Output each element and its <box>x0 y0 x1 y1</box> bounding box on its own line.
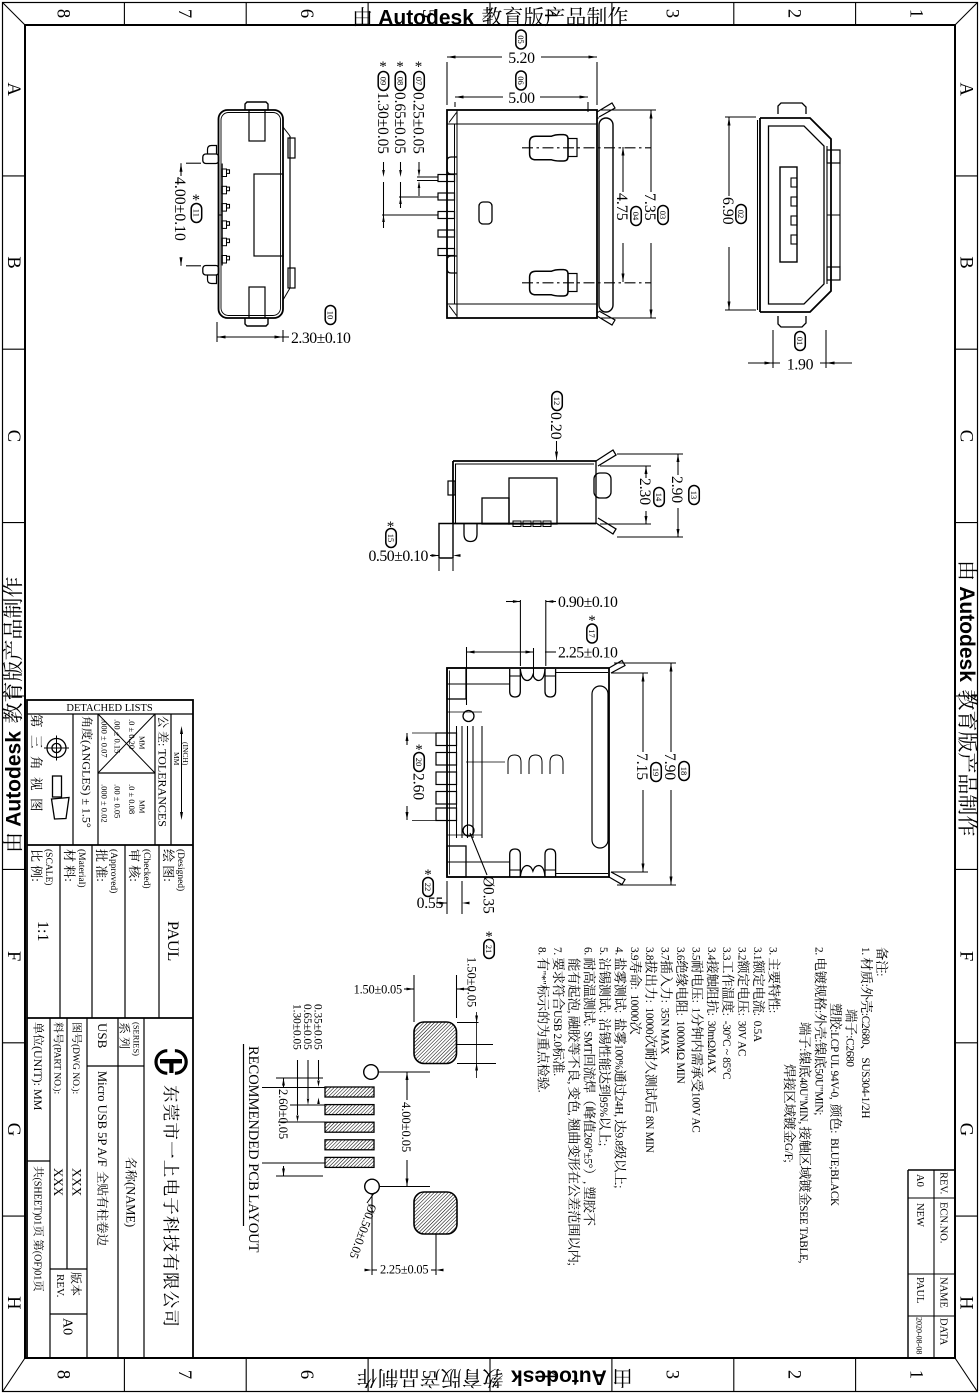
svg-text:1.90: 1.90 <box>787 357 814 374</box>
svg-text:ECN.NO.: ECN.NO. <box>938 1202 949 1243</box>
svg-text:7.90: 7.90 <box>661 753 678 780</box>
svg-text:A0: A0 <box>60 1318 75 1335</box>
svg-text:09: 09 <box>379 77 389 86</box>
svg-text::LCP UL 94V-0,: :LCP UL 94V-0, <box>828 1029 840 1102</box>
svg-text:08: 08 <box>396 77 406 86</box>
revision table <box>908 1169 955 1171</box>
svg-text:C: C <box>3 430 23 442</box>
svg-text:.00 ± 0.05: .00 ± 0.05 <box>112 784 122 818</box>
svg-text:40U"MIN,: 40U"MIN, <box>797 1078 809 1127</box>
view 1: connector top view <box>219 110 284 318</box>
svg-text:PAUL: PAUL <box>164 921 181 961</box>
svg-text::: : <box>766 1010 778 1013</box>
svg-text:SEE TABLE,: SEE TABLE, <box>797 1205 809 1263</box>
svg-text:1.30±0.05: 1.30±0.05 <box>374 92 391 154</box>
svg-text:: 10000: : 10000 <box>628 987 640 1022</box>
svg-text:4.00±0.10: 4.00±0.10 <box>171 177 188 241</box>
svg-text:1.30±0.05: 1.30±0.05 <box>290 1004 302 1050</box>
svg-text:3: 3 <box>662 1370 682 1379</box>
svg-text:13: 13 <box>689 491 699 500</box>
svg-text:RECOMMENDED PCB LAYOUT: RECOMMENDED PCB LAYOUT <box>245 1046 261 1253</box>
svg-text:100%: 100% <box>612 1044 624 1069</box>
svg-text:NEW: NEW <box>914 1203 925 1227</box>
recommended PCB layout <box>245 1046 261 1253</box>
svg-text::: : <box>874 973 886 976</box>
svg-text:7.15: 7.15 <box>633 753 650 780</box>
svg-text:Autodesk: Autodesk <box>378 7 474 30</box>
view 2: connector front view <box>447 110 597 318</box>
svg-text:21: 21 <box>484 945 494 954</box>
svg-text:6.90: 6.90 <box>719 197 736 225</box>
svg-text:3.: 3. <box>766 947 778 957</box>
svg-text:H: H <box>955 1296 975 1309</box>
svg-text:50U"MIN;: 50U"MIN; <box>813 1068 825 1115</box>
svg-text:2.30: 2.30 <box>636 478 653 505</box>
svg-text:1: 1 <box>906 1370 926 1379</box>
svg-text:9.8: 9.8 <box>612 1133 624 1147</box>
svg-text:8.: 8. <box>535 947 547 957</box>
svg-text:1: 1 <box>906 9 926 18</box>
svg-text::: : <box>813 1039 825 1042</box>
Autodesk educational watermarks <box>355 6 628 30</box>
svg-text:: 30V AC: : 30V AC <box>736 1013 748 1056</box>
svg-text:: BLUE;BLACK: : BLUE;BLACK <box>828 1130 840 1206</box>
svg-text:*: * <box>415 742 423 758</box>
svg-text:3: 3 <box>662 9 682 18</box>
svg-text:;: ; <box>612 1185 624 1188</box>
svg-text:A0: A0 <box>914 1174 925 1187</box>
svg-text:(UNIT): MM: (UNIT): MM <box>31 1046 45 1111</box>
svg-text:(PART NO.):: (PART NO.): <box>52 1044 63 1094</box>
svg-text:,: , <box>566 1082 578 1087</box>
svg-text:.000 ± 0.07: .000 ± 0.07 <box>99 719 109 758</box>
svg-text:Autodesk: Autodesk <box>955 586 978 682</box>
svg-text:USB 2.0: USB 2.0 <box>551 1010 563 1047</box>
svg-text:260°±5°: 260°±5° <box>582 1132 594 1168</box>
svg-text:*: * <box>424 867 432 883</box>
svg-text:95%: 95% <box>597 1097 609 1117</box>
svg-text:B: B <box>955 256 975 268</box>
svg-text:: 1000MΩ MIN: : 1000MΩ MIN <box>674 1013 686 1084</box>
svg-text:MM: MM <box>137 736 146 750</box>
svg-text:Ø0.35: Ø0.35 <box>480 876 497 914</box>
svg-text:MM: MM <box>172 752 181 766</box>
svg-text:6: 6 <box>296 9 316 18</box>
svg-text:5.: 5. <box>597 947 609 957</box>
svg-text:*: * <box>485 929 493 945</box>
svg-text:3.9: 3.9 <box>628 947 640 961</box>
svg-text:(NAME): (NAME) <box>124 1182 138 1227</box>
svg-text:(SCALE): (SCALE) <box>43 849 54 885</box>
svg-text:(Checked): (Checked) <box>141 849 152 889</box>
svg-text:2.25±0.10: 2.25±0.10 <box>558 645 618 662</box>
svg-text:7.: 7. <box>551 947 563 957</box>
svg-text:5: 5 <box>418 1370 438 1379</box>
svg-text:MM: MM <box>137 800 146 814</box>
svg-text:3.3: 3.3 <box>720 947 732 961</box>
svg-text:.00 ± 0.15: .00 ± 0.15 <box>112 719 122 753</box>
svg-text:2.: 2. <box>813 947 825 957</box>
svg-text:07: 07 <box>414 77 424 86</box>
svg-text:PAUL: PAUL <box>914 1277 925 1303</box>
svg-text:2.30±0.10: 2.30±0.10 <box>291 330 351 347</box>
svg-text:A: A <box>955 83 975 97</box>
svg-text:G/F;: G/F; <box>782 1143 794 1163</box>
svg-text:8: 8 <box>52 1370 72 1379</box>
svg-text:(SHEET)01: (SHEET)01 <box>31 1178 42 1226</box>
svg-text:G: G <box>3 1123 23 1136</box>
svg-text:7: 7 <box>174 9 194 18</box>
svg-text:: TOLERANCES: : TOLERANCES <box>156 743 170 827</box>
svg-text:0.20: 0.20 <box>547 412 564 440</box>
svg-text:24H,: 24H, <box>612 1096 624 1120</box>
svg-text:XXX: XXX <box>69 1168 84 1197</box>
svg-text:2020-08-08: 2020-08-08 <box>915 1317 924 1354</box>
svg-text:1.: 1. <box>859 947 871 957</box>
svg-text:F: F <box>3 951 23 961</box>
svg-text:: 30mΩMAX: : 30mΩMAX <box>705 1013 717 1074</box>
svg-text:6: 6 <box>296 1370 316 1379</box>
view 3: mating face view <box>760 118 831 312</box>
svg-text::C2680: :C2680 <box>859 1013 871 1045</box>
svg-text:18: 18 <box>679 767 689 776</box>
svg-text:15: 15 <box>386 534 396 543</box>
svg-text:(DWG NO.):: (DWG NO.): <box>70 1044 81 1094</box>
svg-text:0.90±0.10: 0.90±0.10 <box>558 594 618 611</box>
svg-text::: : <box>62 878 77 882</box>
svg-text:10: 10 <box>326 311 336 320</box>
svg-text:03: 03 <box>658 211 668 220</box>
svg-text:1.50±0.05: 1.50±0.05 <box>465 957 479 1007</box>
svg-text:: 35N MAX: : 35N MAX <box>659 1000 671 1055</box>
svg-text:0.50±0.10: 0.50±0.10 <box>369 548 429 565</box>
svg-text:3.2: 3.2 <box>736 947 748 960</box>
svg-text:USB: USB <box>95 1023 110 1049</box>
svg-text::: : <box>127 878 142 882</box>
svg-text:: -30°C ~ 85°C: : -30°C ~ 85°C <box>720 1013 732 1080</box>
svg-text:B: B <box>3 256 23 268</box>
svg-text:.0 ± 0.08: .0 ± 0.08 <box>127 784 137 814</box>
svg-text:DETACHED LISTS: DETACHED LISTS <box>66 703 153 714</box>
svg-text:C: C <box>955 430 975 442</box>
svg-text:5.00: 5.00 <box>508 90 535 107</box>
svg-text:1:1: 1:1 <box>34 921 51 941</box>
svg-text::: : <box>612 1010 624 1018</box>
svg-text:3.1: 3.1 <box>751 947 763 960</box>
svg-text:4.75: 4.75 <box>613 193 630 221</box>
svg-text:: 0.5A: : 0.5A <box>751 1013 763 1042</box>
svg-text:Autodesk: Autodesk <box>3 731 26 827</box>
svg-text:100V AC: 100V AC <box>689 1092 701 1133</box>
svg-text:SUS304-1/2H: SUS304-1/2H <box>859 1058 871 1119</box>
notes 备注 text block <box>874 947 888 976</box>
svg-text:2.60: 2.60 <box>409 773 426 800</box>
svg-text:2.25±0.05: 2.25±0.05 <box>380 1263 428 1277</box>
svg-text:REV.: REV. <box>938 1172 949 1194</box>
svg-text:3.5: 3.5 <box>689 947 701 961</box>
svg-text:5.20: 5.20 <box>508 50 535 67</box>
svg-text:;: ; <box>597 1143 609 1146</box>
svg-text:,: , <box>582 1181 594 1186</box>
svg-text:3.4: 3.4 <box>705 947 717 961</box>
svg-text:8N MIN: 8N MIN <box>643 1113 655 1152</box>
svg-text:0.65±0.05: 0.65±0.05 <box>391 92 408 154</box>
svg-text:2.90: 2.90 <box>668 476 685 503</box>
svg-text:2: 2 <box>784 1370 804 1379</box>
svg-text:12: 12 <box>552 397 562 406</box>
svg-text:*: * <box>192 192 200 209</box>
svg-text:"*": "*" <box>535 971 547 985</box>
svg-text:06: 06 <box>516 76 526 85</box>
svg-text:,: , <box>566 1011 578 1016</box>
svg-text::C2680: :C2680 <box>843 1035 855 1067</box>
svg-text:NAME: NAME <box>938 1277 949 1308</box>
svg-text:*: * <box>588 613 596 629</box>
svg-text:(Approved): (Approved) <box>108 849 119 893</box>
svg-text:20: 20 <box>414 758 424 767</box>
svg-text::: : <box>94 878 109 882</box>
svg-text:Autodesk: Autodesk <box>511 1366 607 1389</box>
svg-text:04: 04 <box>631 212 641 221</box>
svg-text:: 10000: : 10000 <box>643 1000 655 1035</box>
svg-text:17: 17 <box>587 629 597 638</box>
svg-text:.0 ± 0.20: .0 ± 0.20 <box>127 719 137 749</box>
svg-text:22: 22 <box>423 883 433 892</box>
svg-text:,: , <box>566 1113 578 1118</box>
svg-text::: : <box>813 1010 825 1013</box>
svg-text:*: * <box>387 519 395 535</box>
svg-text::: : <box>859 984 871 987</box>
svg-text:14: 14 <box>654 493 664 502</box>
view 4: side view <box>453 460 596 462</box>
svg-text:.: . <box>535 1090 547 1093</box>
svg-text:3.7: 3.7 <box>659 947 671 961</box>
svg-text:XXX: XXX <box>51 1168 66 1197</box>
svg-text:A: A <box>3 83 23 97</box>
svg-text:7: 7 <box>174 1370 194 1379</box>
view 5: bottom view <box>447 668 609 877</box>
svg-text:;: ; <box>566 1263 578 1266</box>
svg-text:0.25±0.05: 0.25±0.05 <box>410 92 427 154</box>
svg-text:4.00±0.05: 4.00±0.05 <box>399 1102 413 1152</box>
svg-text:3.8: 3.8 <box>643 947 655 961</box>
svg-text::: : <box>797 1048 809 1051</box>
svg-text:(INCH): (INCH) <box>181 742 190 766</box>
svg-text::: : <box>597 1010 609 1018</box>
svg-text:F: F <box>955 951 975 961</box>
svg-text:01: 01 <box>795 337 805 346</box>
svg-text:H: H <box>3 1296 23 1309</box>
svg-text:1.50±0.05: 1.50±0.05 <box>354 983 402 997</box>
svg-text:(OF)01: (OF)01 <box>31 1251 42 1280</box>
svg-text:.000 ± 0.02: .000 ± 0.02 <box>99 784 109 823</box>
svg-text:: SMT: : SMT <box>582 1023 594 1054</box>
svg-text:19: 19 <box>651 768 661 777</box>
title block <box>27 700 193 1358</box>
svg-text:REV.: REV. <box>54 1274 66 1298</box>
svg-text:(Designed): (Designed) <box>175 849 186 891</box>
svg-text:4.: 4. <box>612 947 624 957</box>
svg-text:7.35: 7.35 <box>641 193 658 221</box>
svg-text:02: 02 <box>736 210 746 219</box>
svg-text:11: 11 <box>192 209 202 217</box>
svg-text:6.: 6. <box>582 947 594 957</box>
svg-text:: 1: : 1 <box>689 1000 701 1013</box>
svg-text:05: 05 <box>516 35 526 44</box>
svg-text:DATA: DATA <box>938 1318 949 1346</box>
svg-text:(SERIES): (SERIES) <box>131 1022 141 1056</box>
svg-text:2.60±0.05: 2.60±0.05 <box>276 1089 290 1139</box>
svg-text:2: 2 <box>784 9 804 18</box>
svg-text:3.6: 3.6 <box>674 947 686 961</box>
svg-text:(ANGLES) ± 1.5°: (ANGLES) ± 1.5° <box>80 740 94 828</box>
svg-text:G: G <box>955 1123 975 1136</box>
svg-text:(Material): (Material) <box>76 849 87 888</box>
svg-text::: : <box>29 878 44 882</box>
svg-text:Micro USB 5P A/F: Micro USB 5P A/F <box>95 1071 109 1170</box>
svg-text::: : <box>161 878 176 882</box>
svg-text:8: 8 <box>52 9 72 18</box>
